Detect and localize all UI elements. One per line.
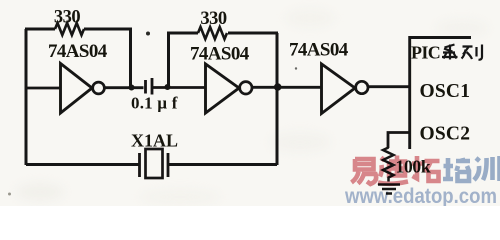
svg-text:0.1 µ f: 0.1 µ f (131, 94, 178, 113)
wire U1B output to U1C input (252, 86, 321, 89)
ground (378, 185, 400, 194)
svg-text:74AS04: 74AS04 (289, 40, 349, 61)
wire input stub U1A (26, 87, 60, 90)
wire OSC2 stub (388, 133, 410, 149)
op-amp U1A inverter triangle (61, 64, 93, 114)
node junction dot A (129, 85, 135, 91)
wire U1C output to OSC1 (368, 85, 410, 88)
wire top rail 2 (167, 32, 278, 35)
svg-text:www.edatop.com: www.edatop.com (344, 185, 497, 206)
PIC block outline (410, 38, 471, 150)
node junction dot B (165, 84, 171, 90)
svg-text:330: 330 (54, 8, 81, 28)
wire left vertical (25, 29, 28, 165)
crystal X1 plates (140, 153, 169, 177)
speck (295, 67, 297, 69)
capacitor C1 plates (146, 78, 153, 95)
crystal X1 body (146, 149, 163, 178)
watermark (344, 156, 499, 209)
watermark char Pei (blue) (443, 158, 470, 181)
resistor R1 330 (55, 23, 84, 35)
op-amp U1B inverter triangle (206, 64, 240, 113)
resistor R3 100k vertical (383, 148, 394, 182)
wire bottom rail (26, 163, 277, 166)
resistor R2 330 (198, 27, 227, 39)
op-amp U1C inverter triangle (322, 64, 356, 114)
bubble U1A (93, 82, 105, 94)
node junction dot C (274, 83, 282, 91)
label XiLie (series) hand-drawn CJK (442, 45, 482, 60)
bubble U1B (240, 82, 252, 94)
watermark char Tuo (red) (412, 156, 440, 181)
svg-text:OSC1: OSC1 (420, 81, 471, 102)
svg-text:74AS04: 74AS04 (190, 44, 250, 65)
svg-text:X1AL: X1AL (131, 131, 178, 151)
wire U1A output to capacitor (105, 86, 144, 89)
paper noise blobs (16, 9, 488, 205)
svg-text:PIC: PIC (411, 43, 440, 63)
watermark char Di (red) (378, 156, 408, 184)
stray ink dot (146, 32, 150, 36)
svg-text:74AS04: 74AS04 (48, 41, 108, 62)
wire top rail 1 (25, 28, 131, 31)
wire right vertical of loop 1 (129, 28, 132, 88)
wire right vertical of loop 2 (276, 33, 279, 165)
speck (8, 193, 11, 196)
wire vertical from dot B up (167, 33, 170, 87)
svg-text:OSC2: OSC2 (420, 124, 471, 145)
wire capacitor to U1B input (153, 86, 205, 89)
watermark char Yi (red) (352, 159, 377, 184)
bubble U1C (356, 81, 368, 93)
svg-text:330: 330 (200, 9, 227, 29)
watermark char Xun (blue) (474, 156, 500, 181)
